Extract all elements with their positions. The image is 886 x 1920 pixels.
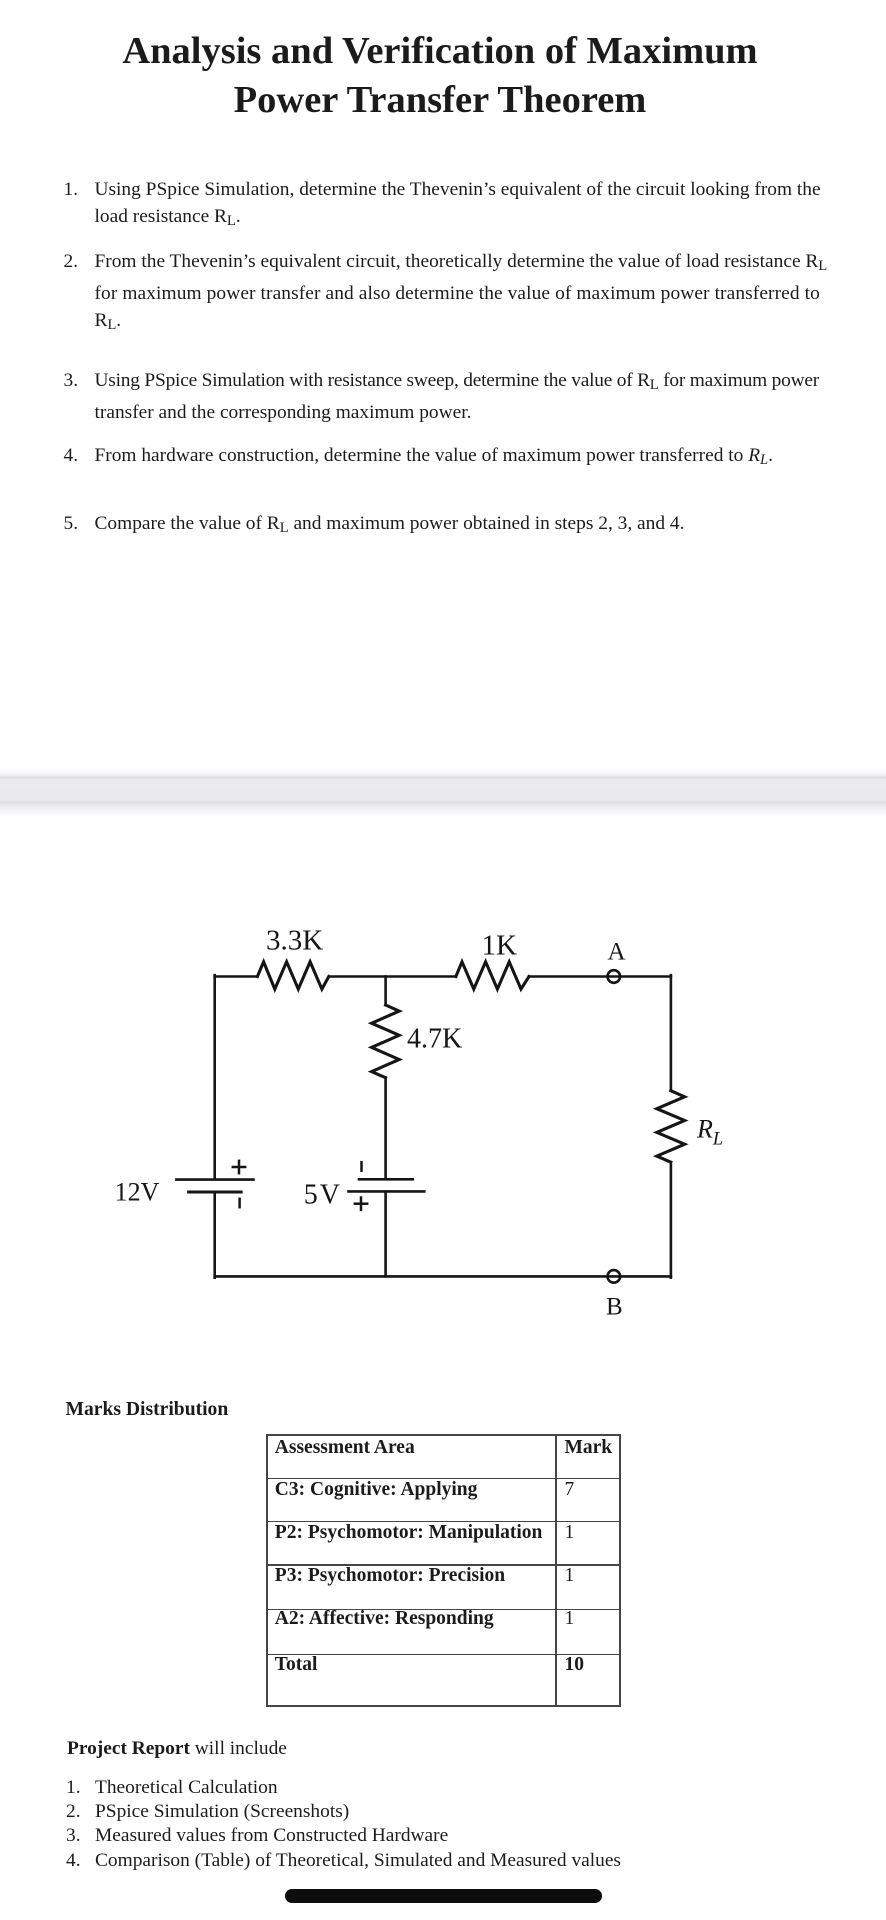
battery V2 minus tick: [360, 1162, 363, 1171]
wire: top rail left segment: [215, 975, 258, 978]
battery V1 12V bottom plate: [189, 1191, 242, 1194]
marks table: [266, 1434, 621, 1707]
svg-text:B: B: [606, 1294, 623, 1321]
wire: middle branch between 4.7K and 5V: [384, 1078, 387, 1178]
wire: middle branch lower: [384, 1193, 387, 1277]
svg-text:4.7K: 4.7K: [407, 1024, 462, 1055]
resistor 3.3K: [257, 962, 328, 989]
resistor RL: [657, 1091, 685, 1163]
wire: bottom rail: [215, 1275, 671, 1278]
svg-text:5V: 5V: [304, 1180, 342, 1211]
svg-text:1K: 1K: [482, 930, 518, 962]
battery V1 plus sign: [233, 1161, 245, 1173]
circuit schematic: [0, 900, 886, 1340]
node A: [608, 970, 621, 983]
Project Report heading: [67, 1739, 287, 1758]
list item 3: [64, 367, 854, 426]
Marks Distribution heading: [66, 1400, 229, 1420]
svg-text:RL: RL: [696, 1115, 723, 1150]
battery V1 minus tick: [238, 1199, 241, 1207]
resistor 4.7K: [372, 1005, 400, 1078]
wire: right rail lower: [670, 1162, 673, 1278]
wire: left rail lower: [213, 1194, 216, 1278]
svg-text:A: A: [608, 939, 626, 966]
title: [0, 27, 883, 125]
battery V2 plus sign: [355, 1198, 367, 1210]
page separator band: [0, 768, 886, 818]
node B: [608, 1270, 621, 1283]
wire: left rail upper: [213, 975, 216, 1178]
wire: top rail middle segment: [329, 975, 456, 978]
wire: top rail right segment: [529, 975, 671, 978]
list item 1: [64, 176, 854, 235]
list item 4: [64, 442, 854, 474]
battery V1 12V top plate: [176, 1178, 253, 1181]
home indicator bar: [285, 1889, 602, 1903]
svg-text:12V: 12V: [115, 1177, 160, 1206]
battery V2 5V top plate: [359, 1178, 413, 1181]
battery V2 5V bottom plate: [349, 1190, 425, 1193]
list item 2: [64, 248, 854, 339]
resistor 1K: [456, 962, 529, 989]
wire: right rail upper: [670, 975, 673, 1090]
project report list: [66, 1776, 621, 1872]
wire: middle branch upper: [384, 977, 387, 1006]
list item 5: [64, 510, 854, 542]
svg-text:3.3K: 3.3K: [266, 925, 323, 957]
